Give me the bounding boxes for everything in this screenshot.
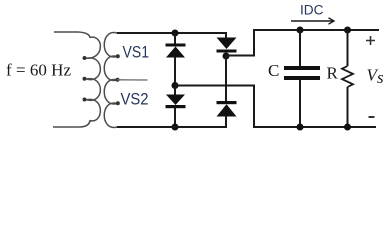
transformer primary top lead wire: [54, 32, 90, 38]
wire D1 anode lead: [174, 57, 176, 86]
wire AC top (secondary top to bridge): [117, 32, 227, 34]
secondary cusp junction dots: [116, 54, 120, 58]
wire D3 cathode lead: [174, 108, 176, 127]
node dot bottom of capacitor branch: [297, 124, 304, 131]
node dot bottom of resistor branch: [344, 124, 351, 131]
wire DC plus (mid right node up to top rail): [226, 30, 379, 56]
svg-text:f = 60 Hz: f = 60 Hz: [6, 61, 71, 80]
wire resistor top lead: [347, 30, 349, 66]
capacitor C top plate: [284, 66, 320, 70]
wire AC bottom (secondary bottom to bridge): [117, 126, 227, 128]
wire D3 anode lead: [174, 86, 176, 96]
transformer secondary winding L2: [104, 33, 117, 128]
svg-text:VS1: VS1: [123, 44, 150, 62]
minus terminal mark: [369, 116, 375, 118]
node dot top of capacitor branch: [297, 27, 304, 34]
diode D1 (points up): [166, 44, 186, 47]
diode D2 (points down): [217, 38, 237, 50]
plus terminal mark: [366, 36, 375, 45]
primary cusp junction dots: [83, 56, 87, 60]
node dot top of left bridge column: [172, 30, 179, 37]
wire D4 anode lead: [225, 117, 227, 128]
wire resistor bottom lead: [347, 87, 349, 127]
secondary center-tap stub wire: [117, 79, 148, 81]
wire capacitor top lead: [299, 30, 301, 66]
wire D1 cathode lead: [174, 33, 176, 44]
node dot mid right column (DC plus): [223, 53, 230, 60]
transformer primary winding L1: [87, 37, 101, 121]
wire D2 anode lead: [225, 33, 227, 38]
resistor R zigzag: [342, 66, 353, 87]
node dot bottom of left column: [172, 124, 179, 131]
wire DC minus (mid left node to bottom rail): [175, 86, 376, 128]
current arrow IDC: [291, 20, 333, 22]
node dot mid left column (DC minus): [172, 82, 179, 89]
node dot top of resistor branch: [344, 27, 351, 34]
wire right column through crossover: [225, 56, 227, 101]
diode D4 (points up): [217, 101, 237, 104]
capacitor C bottom plate: [284, 76, 320, 80]
diode D3 (points down): [166, 95, 185, 106]
svg-text:C: C: [268, 61, 279, 80]
svg-text:R: R: [327, 64, 339, 83]
transformer primary bottom lead wire: [53, 121, 90, 128]
svg-text:VS2: VS2: [121, 91, 149, 109]
svg-text:s: s: [377, 68, 384, 87]
wire capacitor bottom lead: [299, 80, 301, 127]
svg-text:IDC: IDC: [300, 3, 324, 18]
